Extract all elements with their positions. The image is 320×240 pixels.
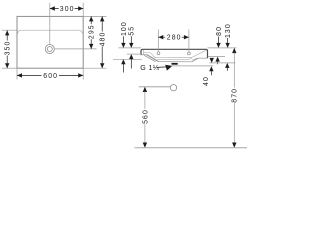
dimension 350	[2, 30, 18, 68]
rim top extension line right	[208, 47, 237, 49]
dimension 130	[209, 23, 235, 71]
svg-text:80: 80	[216, 26, 223, 36]
washbasin top view inner bowl outline	[18, 30, 83, 33]
faucet hole top view	[45, 45, 54, 54]
dimension 300 extension lines	[50, 3, 83, 44]
dimension 80	[208, 26, 225, 64]
washbasin front view body	[141, 49, 208, 62]
front view inner bowl profile	[144, 50, 206, 62]
svg-text:560: 560	[143, 109, 150, 124]
svg-text:40: 40	[203, 76, 210, 86]
dimension 480	[83, 16, 106, 68]
drain outlet stub	[171, 63, 214, 66]
svg-text:295: 295	[89, 24, 96, 39]
drain G 1 1/4 label	[140, 64, 172, 72]
svg-text:300: 300	[60, 6, 75, 13]
dimension 560	[143, 87, 150, 148]
dimension 100	[113, 21, 142, 72]
rim top extension line left	[119, 47, 142, 49]
washbasin top view outer outline	[17, 16, 83, 68]
dimension 295	[55, 16, 107, 49]
svg-text:600: 600	[43, 73, 58, 80]
svg-text:55: 55	[129, 26, 136, 36]
svg-text:130: 130	[225, 23, 232, 38]
svg-text:100: 100	[121, 21, 128, 36]
dimension 300	[50, 5, 83, 13]
floor line	[135, 147, 248, 149]
svg-text:280: 280	[167, 35, 182, 42]
dimension 40	[203, 58, 214, 86]
wall outlet circle	[139, 85, 177, 91]
svg-text:G 1¼: G 1¼	[140, 64, 159, 72]
dimension 55	[127, 26, 141, 69]
svg-text:480: 480	[100, 32, 107, 47]
dimension 280	[158, 30, 189, 52]
faucet hole front view left	[157, 52, 160, 55]
dimension 870	[232, 48, 239, 148]
faucet hole front view right	[188, 52, 191, 55]
dimension 600	[17, 68, 83, 80]
svg-text:350: 350	[5, 41, 12, 56]
svg-text:870: 870	[232, 88, 239, 103]
